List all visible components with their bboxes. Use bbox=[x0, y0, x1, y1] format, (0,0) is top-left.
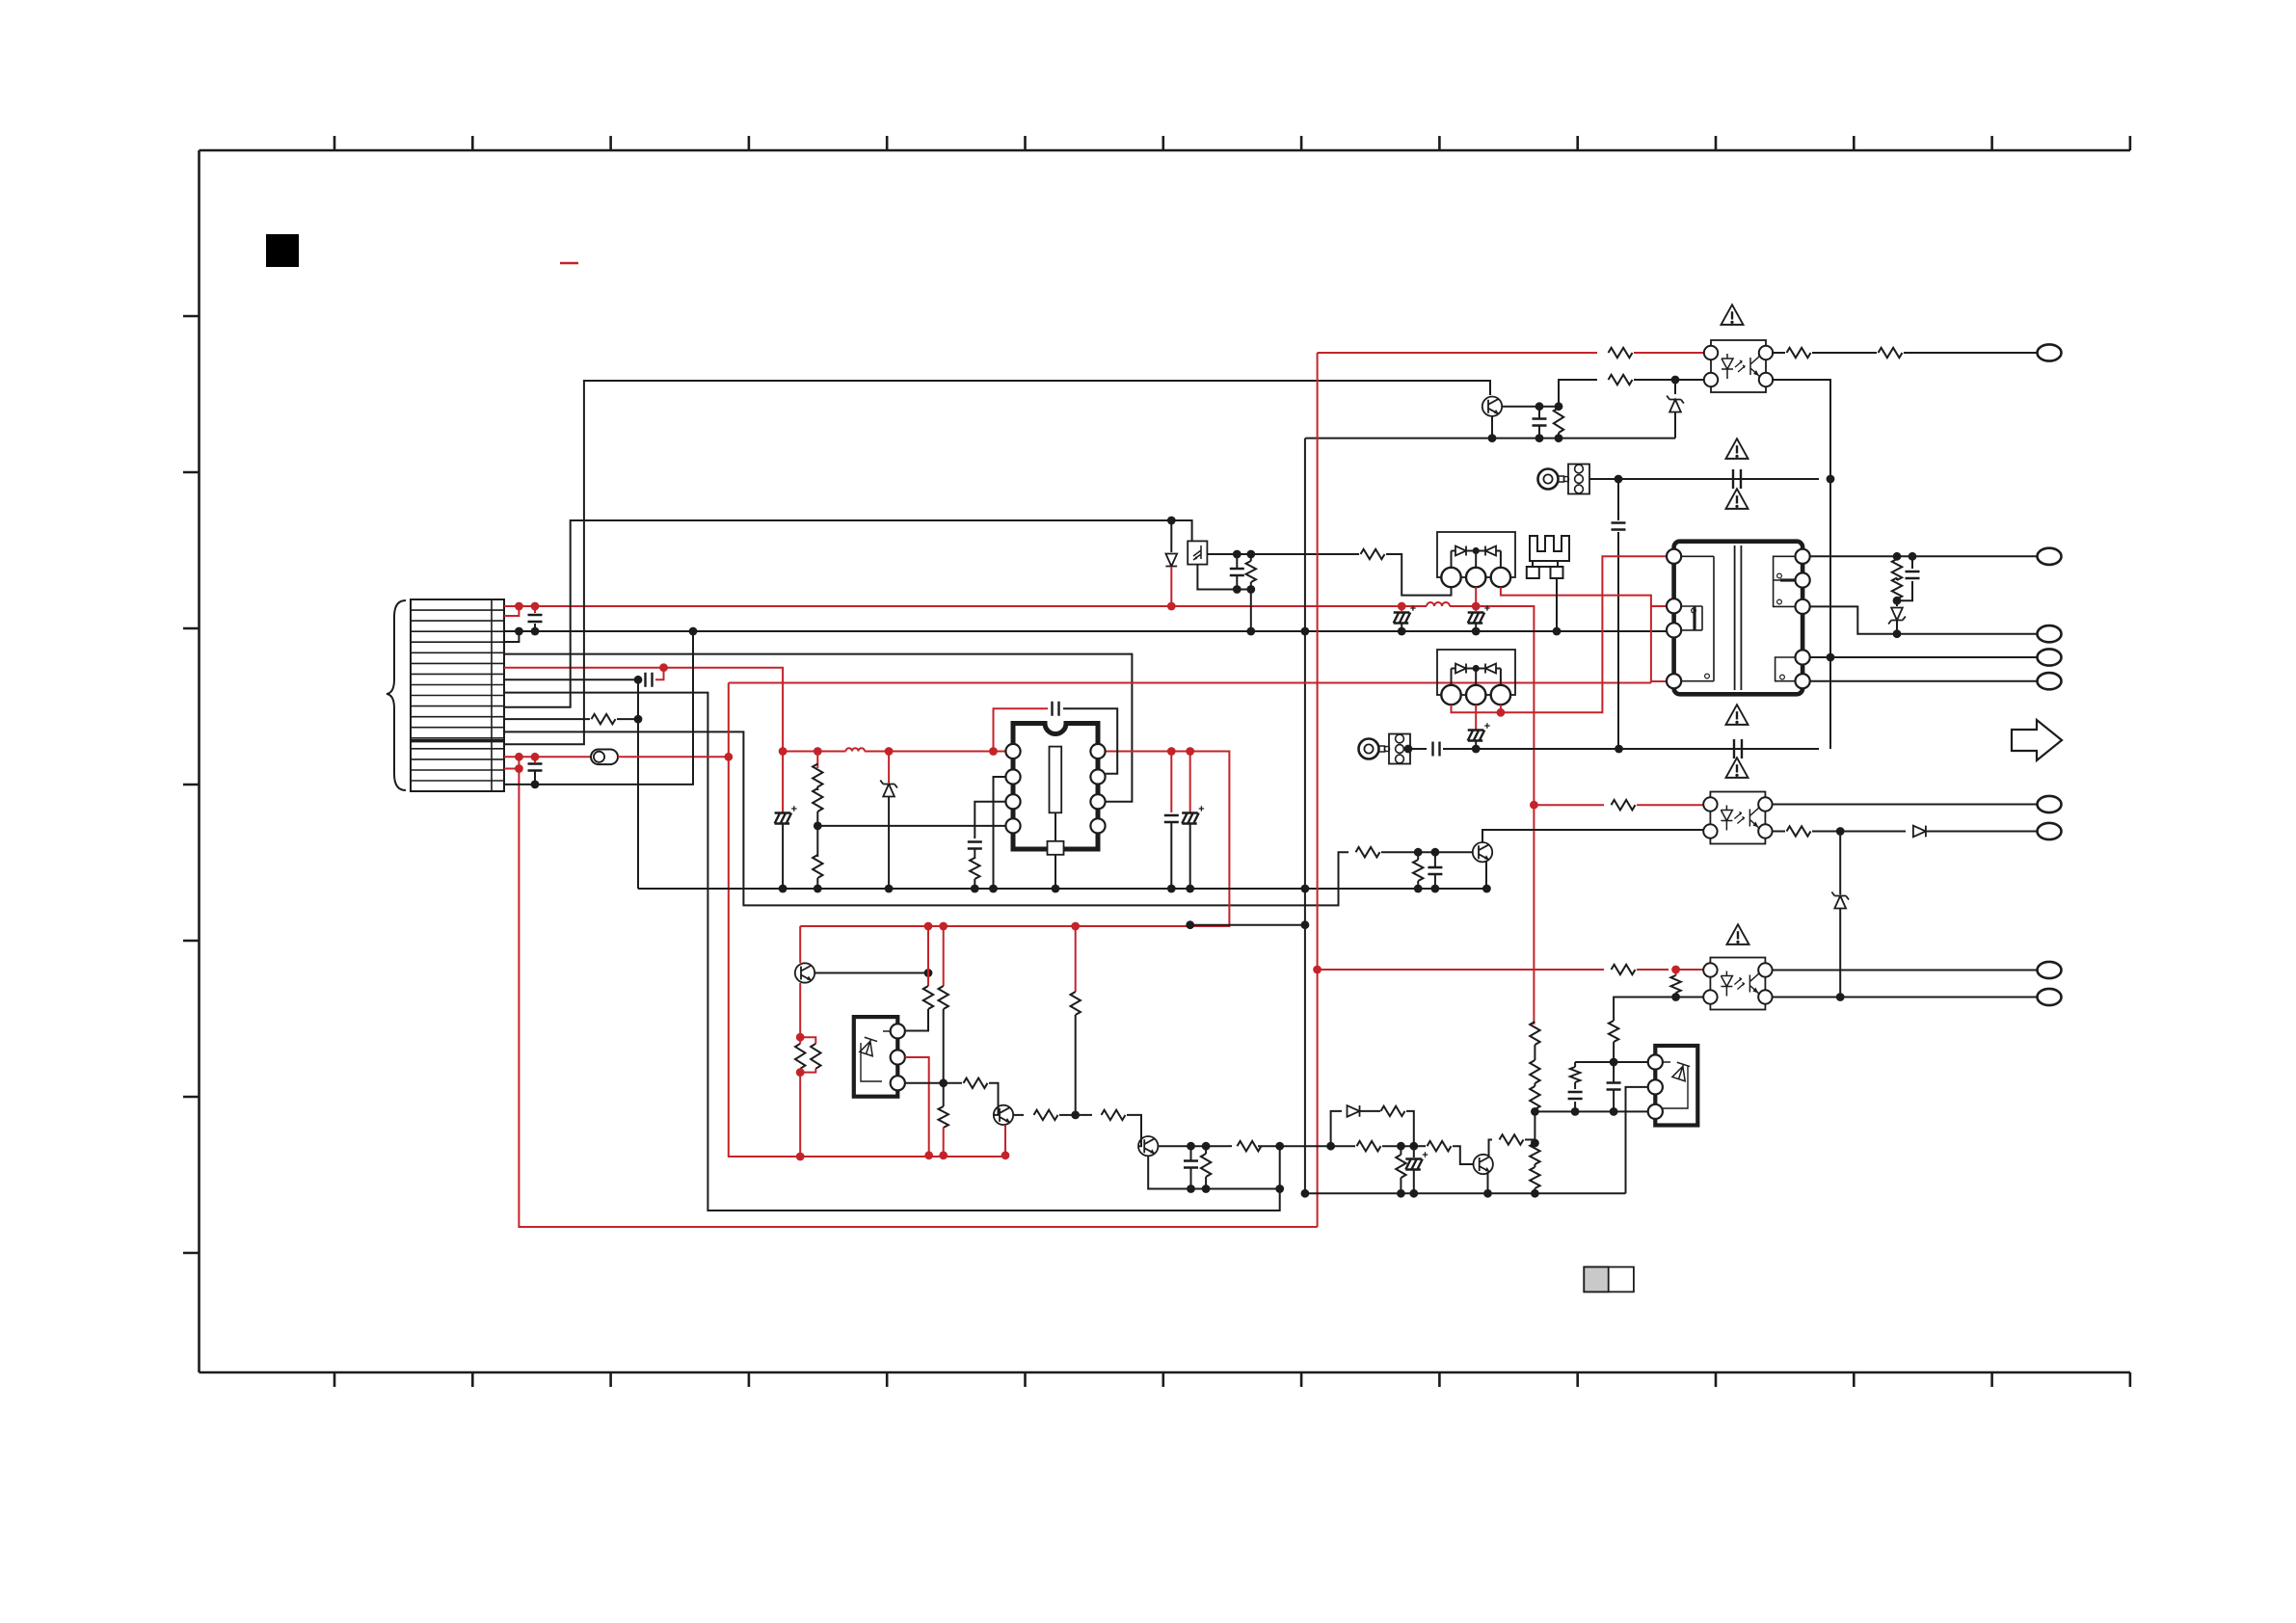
transformer T1 bbox=[1674, 542, 1803, 695]
wire bbox=[504, 732, 1348, 905]
junction bbox=[1397, 1189, 1405, 1198]
wire bbox=[1443, 748, 1819, 750]
junction bbox=[1535, 434, 1544, 442]
wire bbox=[1250, 582, 1252, 590]
wire bbox=[534, 606, 536, 613]
wire bbox=[1417, 881, 1419, 889]
wire bbox=[927, 926, 929, 986]
resistor R24 bbox=[1530, 1060, 1539, 1083]
red dash mark bbox=[560, 262, 578, 264]
wire bbox=[1534, 1164, 1535, 1167]
wire bbox=[799, 983, 801, 1037]
junction bbox=[1233, 550, 1241, 559]
primary tap bbox=[1681, 606, 1702, 630]
wire bbox=[1475, 705, 1477, 712]
wire bbox=[1318, 969, 1604, 971]
diode D9 bbox=[1485, 664, 1496, 674]
electrolytic ground symbol bbox=[1405, 1159, 1423, 1170]
wire bbox=[1189, 824, 1191, 889]
node junction bbox=[779, 747, 788, 756]
wire bbox=[618, 756, 729, 758]
junction bbox=[1202, 1184, 1211, 1193]
node junction bbox=[796, 1068, 805, 1077]
wire bbox=[906, 1009, 928, 1031]
warning triangle bbox=[1726, 439, 1749, 459]
wire bbox=[1637, 804, 1704, 806]
wire bbox=[1419, 1145, 1426, 1147]
wire bbox=[1773, 804, 2038, 806]
junction bbox=[1186, 885, 1194, 893]
block pin bbox=[1648, 1104, 1663, 1119]
bridge rectifier D7 bbox=[1437, 650, 1515, 695]
wire bbox=[1317, 353, 1319, 1227]
wire bbox=[534, 771, 536, 785]
junction bbox=[1893, 552, 1902, 561]
transistor Q3 bbox=[795, 963, 814, 982]
wire bbox=[1500, 669, 1502, 686]
junction bbox=[1615, 475, 1623, 484]
node junction bbox=[796, 1153, 805, 1161]
junction bbox=[1414, 885, 1423, 893]
wire bbox=[1466, 550, 1485, 552]
secondary winding top bbox=[1774, 556, 1795, 606]
wire bbox=[1413, 1170, 1415, 1193]
junction bbox=[1555, 434, 1563, 442]
wire bbox=[1170, 752, 1172, 813]
resistor R40 bbox=[1357, 1141, 1381, 1151]
wire bbox=[1558, 407, 1560, 408]
wire bbox=[799, 1069, 801, 1073]
wire bbox=[1453, 1146, 1473, 1164]
fuse F1 bbox=[591, 750, 618, 765]
junction bbox=[939, 1078, 948, 1087]
junction bbox=[634, 676, 643, 684]
output terminal J3 bbox=[2038, 625, 2062, 642]
wire bbox=[1318, 352, 1597, 354]
junction bbox=[1186, 920, 1194, 929]
transformer pin bbox=[1796, 549, 1810, 564]
frame tick marks left bbox=[183, 316, 200, 1253]
junction bbox=[885, 885, 894, 893]
resistor R3 bbox=[813, 764, 822, 787]
wire bbox=[799, 926, 801, 963]
node junction bbox=[1186, 747, 1194, 756]
IC pin bbox=[1090, 769, 1105, 784]
wire bbox=[1626, 1087, 1648, 1193]
wire bbox=[1618, 478, 1819, 480]
junction bbox=[1827, 653, 1835, 662]
node junction bbox=[1497, 708, 1506, 717]
wire bbox=[729, 683, 1005, 1157]
heatsink bbox=[1530, 536, 1569, 567]
wire bbox=[1810, 680, 2037, 682]
wire bbox=[1487, 1172, 1489, 1193]
wire bbox=[1839, 832, 1841, 895]
wire bbox=[1250, 554, 1252, 561]
wire bbox=[1501, 587, 1651, 683]
wire bbox=[504, 605, 1427, 607]
winding polarity dot bbox=[1777, 599, 1782, 604]
transformer pin bbox=[1667, 549, 1681, 564]
wire bbox=[1558, 433, 1560, 439]
junction bbox=[1482, 885, 1491, 893]
wire bbox=[1382, 1145, 1419, 1147]
wire bbox=[1674, 380, 1676, 394]
warning triangle bbox=[1727, 924, 1749, 945]
wire bbox=[1076, 1114, 1092, 1116]
wire bbox=[1675, 970, 1677, 975]
junction bbox=[1472, 627, 1481, 636]
junction bbox=[1431, 848, 1440, 857]
node junction bbox=[515, 764, 523, 773]
winding polarity dot bbox=[1777, 573, 1782, 578]
wire bbox=[974, 802, 1005, 838]
wire bbox=[1013, 1114, 1024, 1116]
wire bbox=[1066, 1114, 1076, 1116]
wire bbox=[1305, 438, 1675, 439]
capacitor C1 bbox=[528, 615, 543, 622]
wire bbox=[1400, 1146, 1402, 1155]
inductor L2 bbox=[846, 748, 866, 751]
wire bbox=[519, 757, 1317, 1227]
junction bbox=[1893, 629, 1902, 638]
junction bbox=[1535, 402, 1544, 411]
wire bbox=[1676, 969, 1704, 971]
node junction bbox=[1313, 966, 1322, 974]
wire bbox=[783, 751, 845, 753]
wire bbox=[1534, 804, 1604, 806]
block pin bbox=[891, 1050, 905, 1064]
wire bbox=[1410, 748, 1427, 750]
transformer pin bbox=[1796, 572, 1810, 587]
resistor R42 bbox=[1428, 1141, 1452, 1151]
capacitor C8 bbox=[1533, 419, 1547, 426]
transistor Q2 bbox=[1473, 842, 1492, 862]
node junction bbox=[1167, 602, 1176, 611]
wire bbox=[974, 879, 975, 889]
resistor R13 bbox=[1879, 348, 1903, 358]
resistor R23 bbox=[1530, 1022, 1539, 1045]
node junction bbox=[515, 602, 523, 611]
wire bbox=[1651, 680, 1667, 682]
wire bbox=[1614, 998, 1676, 1022]
wire bbox=[1496, 550, 1501, 552]
wire bbox=[1772, 352, 1785, 354]
IC pin bbox=[1005, 744, 1020, 758]
capacitor C5 bbox=[968, 842, 982, 849]
block pin bbox=[891, 1076, 905, 1090]
wire bbox=[1574, 1062, 1576, 1067]
switching IC U1 bbox=[1013, 724, 1098, 850]
block pin bbox=[1648, 1079, 1663, 1094]
resistor R43 bbox=[1500, 1134, 1524, 1144]
wire bbox=[1055, 812, 1056, 841]
wire bbox=[799, 1037, 801, 1044]
wire bbox=[1772, 380, 1830, 749]
wire bbox=[1896, 600, 1898, 606]
wire bbox=[1613, 1042, 1615, 1062]
wire bbox=[1534, 1188, 1535, 1193]
junction bbox=[1167, 517, 1176, 525]
zener diode inside block bbox=[1672, 1062, 1690, 1081]
junction bbox=[1610, 1058, 1618, 1067]
capacitor C9 bbox=[1733, 469, 1741, 489]
transformer core bbox=[1735, 545, 1742, 690]
junction bbox=[1488, 434, 1497, 442]
resistor R34 bbox=[1034, 1110, 1058, 1120]
diode D8 bbox=[1455, 664, 1466, 674]
wire bbox=[1491, 416, 1493, 439]
node junction bbox=[515, 753, 523, 761]
junction bbox=[1167, 885, 1176, 893]
wire bbox=[1896, 556, 1898, 559]
wire bbox=[1538, 407, 1540, 419]
junction bbox=[1909, 552, 1917, 561]
wire bbox=[816, 786, 818, 790]
junction bbox=[1473, 547, 1480, 554]
3-pin connector CN2 bbox=[1389, 734, 1410, 764]
resistor R2 bbox=[1356, 847, 1380, 857]
junction bbox=[1187, 1142, 1195, 1151]
resistor R29 bbox=[811, 1044, 820, 1069]
wire bbox=[1451, 669, 1453, 686]
junction bbox=[1671, 376, 1680, 385]
wire bbox=[800, 752, 1229, 927]
wire bbox=[1170, 520, 1172, 552]
wire bbox=[1381, 851, 1473, 853]
node junction bbox=[724, 753, 733, 761]
transformer pin bbox=[1796, 674, 1810, 688]
junction bbox=[1397, 1142, 1405, 1151]
resistor R20 bbox=[1670, 975, 1680, 993]
transformer pin bbox=[1667, 599, 1681, 613]
wire bbox=[1617, 532, 1619, 749]
wire bbox=[1675, 993, 1677, 998]
resistor R10 bbox=[1609, 375, 1633, 385]
junction bbox=[1671, 993, 1680, 1001]
diode D2 bbox=[1165, 554, 1177, 567]
wire bbox=[1896, 578, 1898, 581]
capacitor C7 bbox=[1230, 569, 1244, 575]
node junction bbox=[1167, 747, 1176, 756]
wire bbox=[994, 777, 1006, 889]
electrolytic ground symbol bbox=[1182, 813, 1199, 824]
wire bbox=[888, 752, 890, 784]
junction bbox=[1187, 1184, 1195, 1193]
output terminal J1 bbox=[2038, 344, 2062, 360]
junction bbox=[814, 885, 822, 893]
transformer pin bbox=[1796, 599, 1810, 614]
wire bbox=[974, 849, 975, 859]
wire bbox=[637, 679, 639, 889]
wire bbox=[1613, 1062, 1615, 1083]
wire bbox=[1475, 551, 1477, 569]
wire bbox=[1434, 874, 1436, 889]
zener diode D3 bbox=[1667, 396, 1684, 412]
output terminal J6 bbox=[2038, 796, 2062, 812]
junction bbox=[1301, 885, 1310, 893]
wire bbox=[905, 1057, 929, 1156]
wire bbox=[1075, 926, 1077, 992]
wire bbox=[1401, 624, 1402, 631]
capacitor C12 bbox=[1734, 739, 1742, 758]
transistor Q4 bbox=[994, 1105, 1013, 1125]
wire bbox=[943, 1128, 945, 1156]
wire bbox=[814, 972, 928, 974]
wire bbox=[1810, 555, 2037, 557]
warning triangle bbox=[1726, 758, 1749, 778]
capacitor C4 bbox=[1053, 702, 1059, 716]
output terminal J8 bbox=[2038, 962, 2062, 978]
resistor R37 bbox=[1201, 1154, 1211, 1177]
wire bbox=[1496, 668, 1501, 670]
resistor R35 bbox=[1102, 1110, 1126, 1120]
wire bbox=[1236, 575, 1238, 590]
resistor R1 bbox=[592, 714, 616, 724]
wire bbox=[865, 751, 1005, 753]
wire bbox=[1500, 551, 1502, 569]
shunt regulator IC block bbox=[1655, 1046, 1697, 1126]
shunt regulator IC block bbox=[854, 1017, 898, 1097]
output terminal J5 bbox=[2038, 673, 2062, 689]
node junction bbox=[1398, 602, 1406, 611]
capacitor C11 bbox=[1433, 742, 1440, 757]
wire bbox=[504, 668, 783, 812]
winding polarity dot bbox=[1780, 675, 1785, 679]
junction bbox=[1893, 597, 1902, 605]
wire bbox=[1589, 478, 1618, 480]
output terminal J9 bbox=[2038, 989, 2062, 1005]
IC pin bbox=[1005, 818, 1020, 833]
junction bbox=[1615, 745, 1623, 754]
junction bbox=[924, 969, 933, 977]
wire bbox=[1839, 909, 1841, 998]
resistor R33 bbox=[964, 1078, 988, 1088]
node junction bbox=[939, 922, 948, 931]
junction bbox=[1409, 1142, 1418, 1151]
photocoupler PC3 bbox=[1710, 958, 1765, 1010]
wire bbox=[1475, 712, 1477, 730]
junction bbox=[1404, 745, 1413, 754]
junction bbox=[1246, 550, 1255, 559]
wire bbox=[1450, 606, 1534, 1023]
wire bbox=[1475, 741, 1477, 749]
wire bbox=[1197, 565, 1250, 631]
resistor R18 bbox=[1787, 826, 1811, 836]
wire bbox=[1170, 567, 1172, 606]
wire bbox=[1535, 1110, 1647, 1112]
resistor R6 bbox=[970, 858, 979, 879]
wire bbox=[1207, 553, 1359, 555]
transistor Q1 bbox=[1482, 397, 1502, 416]
resistor R12 bbox=[1787, 348, 1811, 358]
resistor R15 bbox=[1892, 578, 1902, 599]
wire bbox=[1575, 1061, 1648, 1063]
wire bbox=[888, 797, 890, 889]
wire bbox=[1127, 1115, 1141, 1146]
wire bbox=[1773, 997, 2038, 998]
junction bbox=[1246, 585, 1255, 594]
output terminal J2 bbox=[2038, 548, 2062, 565]
wire bbox=[1475, 587, 1477, 606]
IC pin 5 pad bbox=[1048, 841, 1064, 855]
zener diode D1 bbox=[880, 781, 897, 797]
wire bbox=[534, 757, 536, 763]
resistor R36 bbox=[1071, 992, 1081, 1015]
node junction bbox=[1530, 801, 1538, 810]
junction bbox=[1555, 402, 1563, 411]
wire bbox=[1190, 1168, 1192, 1189]
wire bbox=[1634, 379, 1704, 381]
node junction bbox=[814, 747, 822, 756]
wire bbox=[989, 1083, 999, 1115]
wire bbox=[1148, 1157, 1280, 1189]
wire bbox=[1534, 1083, 1535, 1086]
junction bbox=[1301, 627, 1310, 636]
junction bbox=[1531, 1107, 1539, 1116]
connector CN1 bbox=[411, 599, 504, 791]
node junction bbox=[531, 602, 540, 611]
capacitor C2 bbox=[646, 673, 653, 687]
capacitor C13 bbox=[1906, 572, 1920, 578]
wire bbox=[1500, 705, 1502, 712]
wire bbox=[1452, 668, 1456, 670]
wire bbox=[638, 888, 1489, 890]
wire bbox=[1401, 606, 1402, 612]
resistor R27 bbox=[1530, 1167, 1539, 1188]
electrolytic ground symbol bbox=[775, 813, 792, 824]
resistor R31 bbox=[939, 986, 948, 1009]
wire bbox=[1676, 997, 1704, 998]
electrolytic ground symbol bbox=[1468, 731, 1485, 741]
wire bbox=[1386, 554, 1452, 596]
node junction bbox=[924, 922, 933, 931]
wire bbox=[1613, 1090, 1615, 1112]
wire bbox=[1904, 352, 2037, 354]
resistor R32 bbox=[939, 1106, 948, 1128]
wire bbox=[1205, 1146, 1207, 1154]
resistor R14 bbox=[1892, 559, 1902, 580]
wire bbox=[1475, 624, 1477, 631]
junction bbox=[1071, 1111, 1080, 1120]
wire bbox=[1538, 426, 1540, 439]
wire bbox=[1674, 412, 1676, 439]
wire bbox=[534, 624, 536, 631]
inductor L1 bbox=[1427, 602, 1450, 606]
wire bbox=[1063, 708, 1117, 774]
wire bbox=[1331, 1145, 1355, 1147]
diode D11 bbox=[1913, 826, 1926, 838]
transformer pin bbox=[1667, 674, 1681, 688]
wire bbox=[1331, 1111, 1342, 1146]
wire bbox=[1556, 578, 1558, 631]
wire bbox=[943, 1009, 945, 1083]
wire bbox=[1452, 556, 1668, 712]
wire bbox=[1304, 439, 1306, 1194]
junction bbox=[634, 715, 643, 724]
wire bbox=[905, 1082, 944, 1084]
IC pin bbox=[1005, 769, 1020, 784]
wire bbox=[1189, 752, 1191, 813]
wire bbox=[799, 1073, 801, 1157]
node junction bbox=[1472, 602, 1481, 611]
wire bbox=[1534, 1131, 1535, 1143]
ring terminal E1 bbox=[1538, 469, 1569, 490]
wire bbox=[504, 520, 1192, 707]
wire bbox=[1190, 924, 1305, 926]
wire bbox=[729, 682, 1651, 684]
3-pin connector CN1 bbox=[1568, 465, 1589, 494]
